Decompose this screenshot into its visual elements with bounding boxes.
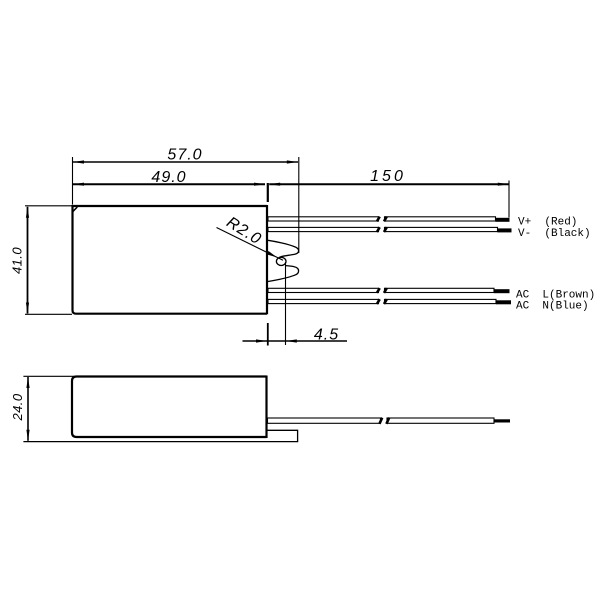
svg-text:V- (Black): V- (Black) — [518, 228, 591, 240]
svg-text:49.0: 49.0 — [151, 169, 186, 186]
wire V+ (top view) — [268, 217, 496, 221]
wire AC N (top view) — [268, 299, 496, 303]
svg-text:24.0: 24.0 — [10, 393, 25, 421]
dimension 4.5 — [243, 262, 348, 346]
dimension 49.0 — [73, 169, 265, 186]
wire AC L (top view) — [268, 288, 494, 292]
mounting tab (side view) — [267, 430, 298, 441]
base plate bottom line (side view) — [23, 441, 298, 443]
svg-text:4.5: 4.5 — [314, 326, 339, 343]
dimension 150 — [269, 168, 509, 218]
radius label R2.0 with leader — [217, 214, 284, 260]
dimension 57.0 — [73, 147, 299, 254]
svg-text:V+ (Red): V+ (Red) — [518, 217, 577, 229]
svg-text:AC N(Blue): AC N(Blue) — [516, 300, 589, 312]
body outline top view — [73, 205, 268, 314]
wire (side view) — [268, 418, 495, 423]
mounting tab with slot (top view) — [268, 240, 299, 281]
svg-text:41.0: 41.0 — [10, 247, 25, 274]
dimension 41.0 — [10, 206, 73, 314]
svg-text:150: 150 — [370, 168, 406, 185]
wire V- (top view) — [268, 227, 498, 231]
body outline side view — [72, 376, 267, 439]
shared extension line between 49.0 and 150 — [267, 183, 269, 202]
svg-text:57.0: 57.0 — [167, 147, 202, 164]
dimension 24.0 — [10, 376, 78, 441]
